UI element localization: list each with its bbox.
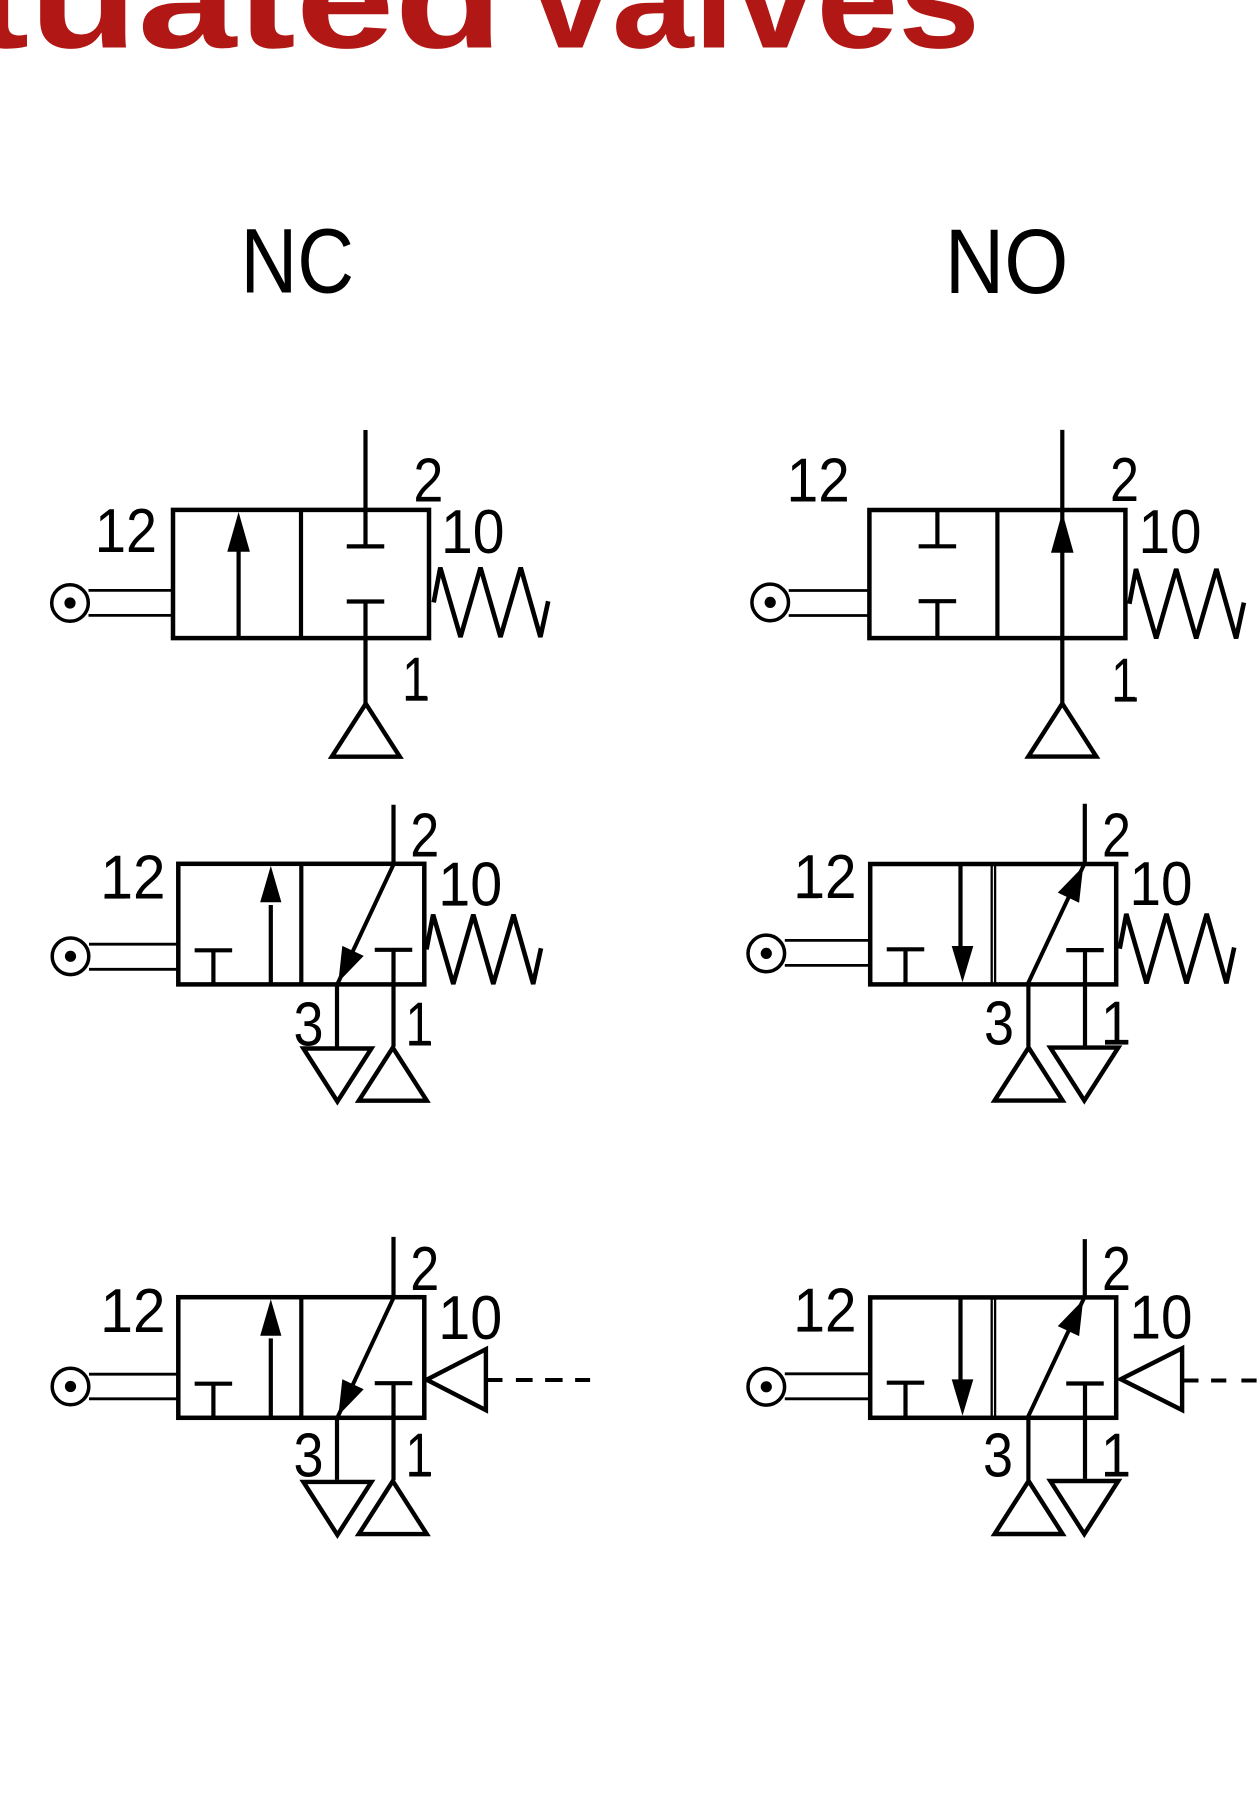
svg-text:12: 12 — [95, 497, 157, 566]
svg-text:3: 3 — [294, 991, 324, 1060]
svg-text:3: 3 — [294, 1421, 324, 1490]
svg-text:2: 2 — [410, 1235, 439, 1304]
svg-text:2: 2 — [413, 446, 443, 515]
svg-text:NC: NC — [241, 211, 355, 313]
svg-text:NO: NO — [945, 211, 1069, 313]
svg-text:1: 1 — [406, 991, 433, 1060]
svg-text:2: 2 — [1110, 446, 1139, 515]
svg-text:1: 1 — [1101, 990, 1131, 1059]
svg-text:10: 10 — [438, 1284, 502, 1353]
svg-text:12: 12 — [794, 843, 857, 912]
svg-text:12: 12 — [794, 1277, 857, 1346]
svg-text:2: 2 — [1102, 1235, 1131, 1304]
svg-text:10: 10 — [1130, 850, 1193, 919]
svg-text:12: 12 — [101, 1277, 166, 1346]
svg-text:tuated: tuated — [0, 0, 503, 78]
svg-text:12: 12 — [101, 844, 166, 913]
svg-text:10: 10 — [438, 851, 502, 920]
svg-text:1: 1 — [402, 646, 429, 715]
svg-text:1: 1 — [406, 1421, 433, 1490]
svg-text:3: 3 — [984, 990, 1014, 1059]
svg-text:10: 10 — [441, 498, 505, 567]
svg-text:2: 2 — [410, 802, 439, 871]
svg-text:10: 10 — [1130, 1283, 1193, 1352]
svg-text:12: 12 — [787, 446, 850, 515]
svg-text:3: 3 — [983, 1421, 1013, 1490]
svg-text:10: 10 — [1139, 498, 1202, 567]
svg-text:2: 2 — [1102, 802, 1131, 871]
svg-text:1: 1 — [1111, 647, 1137, 716]
svg-text:valves: valves — [530, 0, 980, 78]
svg-text:1: 1 — [1101, 1421, 1131, 1490]
